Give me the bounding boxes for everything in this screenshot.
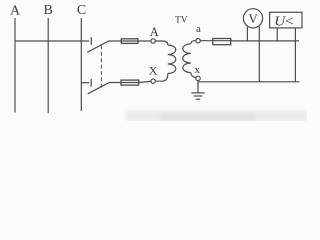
wire: terminal A to primary coil [155, 41, 168, 45]
wire: voltmeter left lead [246, 27, 248, 41]
bus C (phase C vertical line) [80, 18, 82, 111]
ground bar 2 [194, 95, 203, 97]
switch QS pole 1 blade [87, 41, 109, 53]
bus B (phase B vertical line) [47, 18, 49, 113]
voltmeter PV circle [243, 9, 262, 28]
relay KV box [270, 12, 302, 28]
terminal a circle [196, 39, 200, 43]
ground bar 3 [196, 98, 200, 100]
wire: relay U-less left lead [276, 28, 278, 41]
wire: terminal a to fuse FU3 [200, 40, 232, 42]
wire: blade 2 to fuse FU2 [109, 81, 151, 82]
svg-text:a: a [196, 23, 201, 35]
wire: top rail from FU3 to right end [232, 40, 299, 42]
wire: secondary coil top to terminal a [191, 41, 196, 44]
scan smudge blob [160, 114, 255, 122]
svg-text:B: B [44, 3, 53, 18]
switch QS pole 2 blade [88, 82, 110, 94]
svg-text:TV: TV [175, 16, 188, 26]
wire: voltmeter right lead down to bottom rail [258, 27, 260, 82]
switch QS pole 2 fixed contact tick [90, 79, 92, 87]
switch QS pole 1 fixed contact tick [90, 37, 92, 45]
scan smudge bottom band [126, 111, 307, 121]
TV primary winding [168, 45, 176, 74]
switch gang linkage (dashed) [100, 46, 102, 88]
terminal x circle [196, 76, 200, 80]
wire: bottom rail from terminal x to right end [198, 81, 300, 83]
ground stem [197, 81, 199, 93]
svg-text:A: A [150, 25, 159, 39]
bus A (phase A vertical line) [14, 18, 16, 113]
terminal X circle [151, 79, 155, 83]
wire: relay U-less right lead down to bottom rail [294, 28, 296, 82]
paper background [0, 0, 307, 121]
svg-text:X: X [149, 63, 158, 77]
terminal A circle [151, 39, 155, 43]
fuse FU2 (phase C) [121, 80, 139, 85]
ground bar 1 [191, 92, 204, 94]
wire: primary coil bottom to terminal X [155, 74, 168, 82]
svg-text:x: x [194, 64, 200, 76]
svg-text:V: V [248, 11, 258, 26]
svg-text:U<: U< [274, 14, 294, 29]
TV secondary winding [183, 44, 191, 73]
wire: phase C tap to switch pole 2 [81, 82, 89, 84]
wire: phase A tap to switch pole 1 [15, 40, 89, 42]
svg-text:A: A [10, 4, 21, 19]
wire: secondary coil bottom to terminal x [191, 73, 196, 78]
fuse FU1 (phase A) [121, 39, 138, 44]
fuse FU3 (secondary) [213, 39, 231, 45]
svg-text:C: C [77, 3, 86, 18]
wire: blade 1 to fuse FU1 [109, 40, 151, 42]
